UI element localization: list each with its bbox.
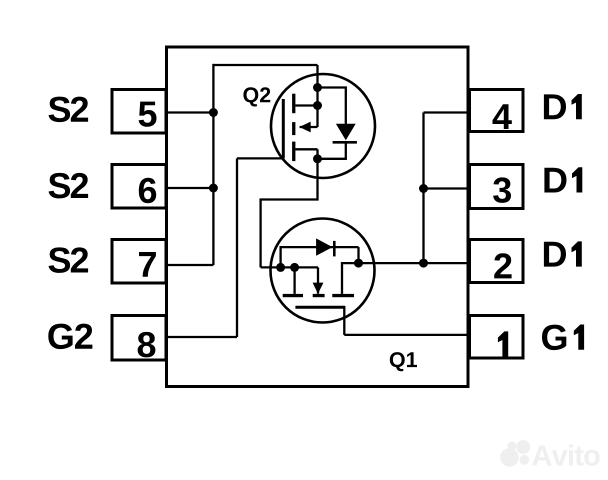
Q2 drain stub vertical [316, 149, 318, 159]
Q2 source stub [295, 104, 317, 106]
Q1 source stub [293, 267, 295, 294]
pin 6 box [112, 165, 166, 209]
Q2 gate bar [282, 99, 285, 158]
junction dot pin3 bus [419, 184, 428, 193]
pin 1 box [470, 316, 524, 359]
wire pin2 to Q1 drain [359, 262, 472, 264]
Q1 body arrow line [317, 267, 319, 293]
Q2 channel dash top [292, 94, 295, 114]
label D1 pin2 letter D [544, 242, 566, 267]
Q1 channel dash middle [313, 294, 325, 297]
Q2 body arrowhead [299, 122, 310, 133]
wire S2 bus top horizontal to Q2 source [213, 64, 317, 66]
node dot Q2 source-diode junction [313, 83, 322, 92]
label D1 pin4 digit 1 [572, 94, 582, 119]
Q1 source line horizontal [261, 266, 318, 268]
Q2 body arrow line [300, 126, 318, 128]
pin 7 box [112, 240, 166, 284]
transistor Q1 circle [271, 219, 375, 323]
node dot Q2 drain-diode junction [313, 154, 322, 163]
node dot Q1 source-diode junction [276, 263, 285, 272]
pin 2 box [470, 240, 524, 283]
pin 5 box [112, 90, 166, 134]
label S2 pin5 [49, 97, 89, 123]
junction dot pin6 bus [209, 184, 218, 193]
wire pin3 to D1 bus [424, 187, 472, 189]
label D1 pin2 digit 1 [572, 241, 582, 266]
node dot Q1 drain-diode junction [354, 259, 363, 268]
wire pin6 to S2 bus [166, 187, 213, 189]
wire S2 bus vertical [212, 64, 214, 265]
pin number 4 [493, 104, 512, 129]
pin number 7 [139, 252, 156, 277]
Q2 body diode triangle [336, 124, 356, 140]
Q1 channel dash right [332, 294, 354, 297]
Q2 body diode top branch [318, 88, 346, 124]
Q2 drain stub [295, 148, 317, 150]
Q2 body diode cathode bar [333, 141, 357, 144]
pin number 8 [138, 332, 156, 358]
label Q2 [243, 87, 270, 106]
watermark avito logo circles [500, 440, 530, 467]
watermark avito text [532, 445, 600, 466]
wire Q2 drain to Q1 source [261, 159, 318, 268]
Q1 channel dash left [283, 294, 303, 297]
wire Q1 gate lead vertical [343, 306, 345, 335]
junction dot pin2 bus [419, 259, 428, 268]
Q1 body diode left branch [281, 247, 359, 267]
pin number 1 [498, 331, 508, 356]
wire pin4 to D1 bus [424, 111, 472, 113]
wire pin1 to Q1 gate lead [344, 334, 471, 336]
pin number 3 [493, 177, 511, 203]
label S2 pin6 [49, 173, 89, 199]
label G1 pin1 letter G [542, 325, 566, 351]
label S2 pin7 [49, 247, 89, 273]
transistor Q2 circle [271, 74, 375, 178]
Q1 body diode right branch [357, 247, 359, 263]
label D1 pin3 letter D [544, 168, 566, 193]
pin 3 box [470, 165, 524, 209]
IC package outline [167, 47, 469, 387]
Q2 body diode bottom branch [318, 142, 346, 159]
Q1 body diode triangle [316, 238, 332, 255]
Q1 gate bar [295, 306, 345, 309]
pin number 6 [139, 178, 156, 204]
wire G2 horizontal to Q2 gate [237, 157, 285, 159]
Q1 body diode cathode bar [333, 241, 336, 257]
label Q1 [390, 352, 417, 371]
pin number 5 [139, 102, 157, 127]
Q1 drain stub [342, 263, 359, 294]
wire pin5 to S2 bus [166, 111, 213, 113]
label D1 pin3 digit 1 [572, 167, 582, 192]
pin 8 box [112, 316, 166, 361]
wire G2 vertical [236, 158, 238, 337]
Q2 source terminal vertical [316, 65, 318, 127]
wire D1 bus vertical [422, 113, 424, 264]
node dot Q2 source-body junction [313, 101, 322, 110]
pin 4 box [470, 90, 524, 132]
Q2 channel dash middle [292, 122, 295, 135]
wire pin8 to G2 vertical [166, 336, 237, 338]
label G1 pin1 digit 1 [574, 325, 584, 350]
label D1 pin4 letter D [544, 94, 566, 119]
junction dot pin5 bus [209, 108, 218, 117]
node dot Q1 source-stub junction [290, 263, 299, 272]
pin number 2 [494, 253, 511, 278]
label G2 pin8 [48, 324, 92, 350]
wire pin7 to S2 bus [166, 264, 213, 266]
Q2 channel dash bottom [292, 142, 295, 162]
Q1 body arrowhead [313, 283, 324, 294]
